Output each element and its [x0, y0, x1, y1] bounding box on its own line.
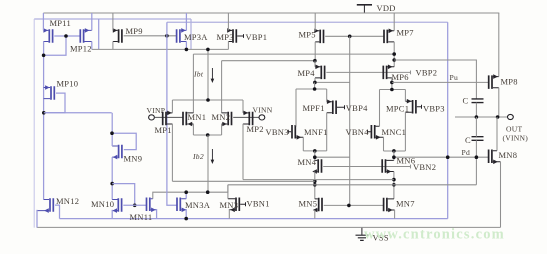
- transistor MP6 (PMOS): [383, 65, 394, 80]
- wire VBP2 tick: [410, 71, 412, 75]
- svg-text:MN12: MN12: [56, 196, 79, 206]
- svg-text:MPF1: MPF1: [303, 103, 325, 113]
- junction MP3A drain junction: [185, 48, 189, 52]
- wire MN2 gate to VINN: [233, 116, 259, 118]
- svg-text:MP12: MP12: [70, 44, 92, 54]
- VDD supply symbol: [357, 5, 372, 13]
- wire MP5 drain down: [314, 42, 316, 61]
- wire MP12 drain down: [91, 42, 93, 50]
- transistor MNF1 (NMOS): [288, 125, 303, 140]
- svg-text:VBN3: VBN3: [266, 127, 289, 137]
- wire MP2 drain down: [242, 124, 244, 180]
- svg-text:MP6: MP6: [392, 72, 409, 82]
- svg-text:MP10: MP10: [57, 79, 79, 89]
- svg-text:MP11: MP11: [50, 18, 71, 28]
- junction lineA-MP7 node: [392, 52, 396, 56]
- junction lineB-MP5 node: [313, 59, 317, 63]
- svg-text:VBN4: VBN4: [346, 127, 370, 137]
- wire MP3A source to rail: [185, 13, 187, 30]
- svg-text:Pd: Pd: [462, 148, 471, 157]
- wire Pu line (MP6 drain to MP8 gate): [392, 81, 489, 83]
- wire MP11-MP12 gate line: [54, 35, 80, 37]
- junction MN10 gate tie node: [133, 204, 137, 208]
- wire VBN2 tick: [410, 165, 412, 169]
- svg-text:MN1: MN1: [188, 112, 207, 122]
- port VINN: [259, 115, 265, 120]
- svg-text:www.cntronics.com: www.cntronics.com: [364, 227, 505, 243]
- svg-text:MN7: MN7: [396, 199, 415, 209]
- port VINP: [149, 115, 155, 120]
- junction left branch bottom node: [313, 149, 317, 153]
- wire line P2 (MP1 drain to MN4 source): [172, 180, 314, 182]
- junction MN6 source node P1: [392, 178, 396, 182]
- junction MN3A drain junction: [184, 190, 188, 194]
- wire MP7 drain down to MP6: [393, 42, 395, 67]
- wire MP10 gate-drain loop: [44, 93, 65, 113]
- capacitor C2: [472, 137, 484, 141]
- wire MP2 source up: [242, 100, 244, 113]
- wire left column vertical (MP11 drain to MN12 drain): [43, 42, 45, 200]
- svg-text:VBP1: VBP1: [246, 32, 268, 42]
- wire bias column (rail2 to MN3A gate): [167, 22, 177, 205]
- wire MN1 source down: [192, 124, 194, 135]
- transistor MP12 (PMOS): [80, 28, 92, 43]
- wire MN4 source column: [314, 172, 316, 199]
- wire MN10 source down: [111, 210, 113, 219]
- wire MN8 drain up to OUT: [496, 117, 498, 151]
- transistor MN5 (NMOS): [313, 198, 322, 213]
- wire VBP2 gate line: [326, 71, 410, 73]
- capacitor C1: [472, 99, 484, 103]
- junction MN7 drain node P3: [392, 183, 396, 187]
- wire MNF1 source down: [302, 137, 304, 151]
- wire MN6 source column: [393, 172, 395, 199]
- wire MN9 drain up: [111, 113, 113, 146]
- junction right branch bottom node: [392, 149, 396, 153]
- wire line P3 (MN3/MN5/MN7 drains): [228, 184, 477, 186]
- svg-text:MP9: MP9: [126, 26, 143, 36]
- svg-text:MNC1: MNC1: [382, 127, 407, 137]
- wire MP3 drain down: [227, 42, 229, 50]
- svg-text:Ibt: Ibt: [193, 70, 204, 79]
- wire MP1 source up: [171, 100, 173, 113]
- junction MP3A gate node: [165, 34, 169, 38]
- wire MN10 gate-drain tie: [112, 184, 135, 206]
- junction MN5 drain node P3: [313, 183, 317, 187]
- transistor MP3 (PMOS): [227, 28, 243, 43]
- transistor MN3 (NMOS): [228, 198, 246, 213]
- transistor MN12 (NMOS): [37, 198, 53, 213]
- junction Ib2 bottom junction: [206, 190, 210, 194]
- svg-text:MN2: MN2: [212, 112, 231, 122]
- wire MP5 source to rail: [314, 13, 316, 31]
- transistor MP9 (PMOS): [113, 28, 122, 43]
- junction MP10 drain node: [42, 111, 46, 115]
- junction right branch node: [390, 88, 394, 92]
- junction MP4 drain node: [313, 81, 317, 85]
- wire MPF1 drain down: [326, 113, 328, 151]
- svg-text:MP5: MP5: [299, 30, 316, 40]
- wire MNC1 drain up: [379, 90, 381, 127]
- svg-text:Ib2: Ib2: [192, 152, 204, 161]
- wire VSS bottom rail: [37, 226, 501, 228]
- wire MN4-MN6 gate line: [323, 166, 410, 168]
- transistor MP7 (PMOS): [384, 29, 394, 44]
- transistor MN10 (NMOS): [112, 198, 121, 213]
- wire Pd line (MN6 drain to MN8 gate): [394, 156, 489, 158]
- wire MP9 source to rail: [112, 13, 114, 30]
- transistor MP11 (PMOS): [43, 28, 52, 43]
- wire MP12 source to rail: [91, 13, 93, 30]
- wire cascode line B (MN2 drain fold): [222, 60, 315, 62]
- svg-text:VBN1: VBN1: [247, 199, 270, 209]
- transistor MP2 (PMOS): [243, 111, 253, 126]
- wire left branch stub: [314, 82, 316, 89]
- svg-text:MPC1: MPC1: [386, 104, 409, 114]
- wire MN11 drain up/right: [153, 185, 228, 199]
- wire left branch top line: [296, 88, 327, 90]
- wire MP4 source up: [314, 61, 316, 67]
- wire right branch bottom line: [384, 150, 406, 152]
- wire blue right vertical (Pd net): [447, 22, 449, 218]
- wire left branch bottom line: [303, 150, 326, 152]
- wire OUT line: [455, 116, 507, 118]
- wire MP9-MP3A gate line: [124, 35, 177, 37]
- svg-text:VINN: VINN: [253, 105, 273, 114]
- wire MNC1 source down: [383, 137, 385, 151]
- transistor MP1 (PMOS): [163, 111, 173, 126]
- wire MN9 gate-drain loop: [112, 133, 136, 149]
- junction MN3A source junction: [184, 217, 188, 221]
- wire MN4 drain tap line: [315, 156, 350, 158]
- transistor MP8 (PMOS): [489, 74, 499, 89]
- wire MP11 gate-drain loop: [44, 36, 66, 55]
- wire MN9 source down to MN10 drain: [111, 157, 113, 199]
- transistor MNC1 (NMOS): [368, 125, 384, 140]
- wire MNF1 drain up: [295, 89, 297, 126]
- wire MPC1 drain down: [404, 112, 406, 151]
- wire MN3 drain up to P3: [227, 185, 229, 199]
- wire MN7 source down: [394, 210, 396, 219]
- transistor MP4 (PMOS): [315, 65, 325, 80]
- wire blue bottom line: [60, 218, 448, 220]
- wire bias drain line y49: [92, 48, 229, 50]
- wire blue rail 1: [34, 18, 191, 20]
- junction node tail-Ibt: [206, 98, 210, 102]
- wire Ibt wire: [207, 49, 209, 100]
- wire MP8 drain down to OUT: [498, 88, 500, 117]
- transistor MPF1 (PMOS): [327, 99, 345, 114]
- wire MP4 drain down: [314, 78, 316, 83]
- junction tail bottom node: [206, 133, 210, 137]
- junction MP11 gate node: [64, 34, 68, 38]
- wire VDD top rail: [43, 12, 499, 14]
- svg-text:MP7: MP7: [397, 28, 414, 38]
- junction OUT-C node: [475, 115, 479, 119]
- transistor MN6 (NMOS): [382, 159, 394, 174]
- junction MN4 drain tap: [313, 155, 317, 159]
- transistor MPC1 (PMOS): [405, 99, 421, 114]
- wire MP1 drain down: [171, 124, 173, 182]
- transistor MP5 (PMOS): [314, 29, 323, 44]
- svg-text:VBP3: VBP3: [423, 104, 445, 114]
- transistor MP3A (PMOS): [177, 28, 187, 43]
- svg-text:MP2: MP2: [247, 124, 264, 134]
- wire tail top line: [172, 99, 243, 101]
- transistor MN11 (NMOS): [147, 198, 157, 213]
- wire MN2 drain vertical: [221, 61, 223, 113]
- wire C2 bottom to P3: [475, 140, 477, 185]
- svg-text:MP3: MP3: [217, 32, 234, 42]
- wire MN12 gate to blue line: [55, 205, 60, 219]
- svg-text:VBP4: VBP4: [346, 103, 368, 113]
- junction mirror gate node: [348, 35, 352, 39]
- svg-text:MN3A: MN3A: [185, 200, 211, 210]
- wire MN2 source down: [221, 124, 223, 135]
- Ib2 current arrow: [211, 149, 215, 164]
- svg-text:MN9: MN9: [124, 153, 143, 163]
- junction MN9 drain node: [110, 131, 114, 135]
- svg-text:MN11: MN11: [130, 212, 153, 222]
- wire MN5 source down: [314, 210, 316, 219]
- junction MP11 drain node: [42, 54, 46, 58]
- wire MP3 source to rail: [227, 13, 229, 30]
- transistor MN7 (NMOS): [384, 198, 395, 213]
- wire line P1 (MP2 drain to MN6 source): [243, 179, 394, 181]
- junction MN9-MN10 node: [110, 182, 114, 186]
- junction Pd-blue node: [446, 155, 450, 159]
- svg-text:MNF1: MNF1: [304, 127, 328, 137]
- wire mirror bias vertical: [349, 36, 351, 205]
- wire MP5-MP7 gate line: [325, 35, 384, 37]
- junction OUT-MP8 node: [496, 115, 500, 119]
- svg-text:(VINN): (VINN): [503, 134, 529, 143]
- transistor MN2 (NMOS): [222, 112, 232, 127]
- svg-text:C: C: [463, 96, 469, 106]
- transistor MN9 (NMOS): [112, 145, 122, 160]
- wire MP10 drain node to MN9 drain: [44, 112, 112, 114]
- junction Ibt top junction: [206, 48, 210, 52]
- wire MN1 drain vertical: [192, 54, 194, 113]
- svg-text:MP1: MP1: [155, 125, 172, 135]
- wire MP9 drain down: [112, 42, 114, 50]
- wire VINP to gates: [154, 116, 183, 118]
- wire pair source line: [193, 134, 221, 136]
- ground symbol VSS: [356, 228, 369, 241]
- transistor MN3A (NMOS): [177, 198, 186, 213]
- svg-text:VDD: VDD: [377, 3, 396, 13]
- svg-text:MN8: MN8: [499, 150, 518, 160]
- wire MN8 source down to VSS: [500, 162, 502, 228]
- transistor MN8 (NMOS): [489, 150, 501, 165]
- junction MN6 drain tap: [392, 155, 396, 159]
- wire MPF1 source up: [326, 89, 328, 102]
- wire MP6 drain down: [391, 78, 393, 90]
- junction comp-MP6 node: [392, 58, 396, 62]
- svg-text:MN3: MN3: [220, 200, 239, 210]
- junction MN5 gate node: [347, 204, 351, 208]
- wire MP4 drain line to mirror: [315, 81, 350, 83]
- wire compensation line to C1: [394, 60, 476, 99]
- wire rail1 drop to Ibt line: [190, 19, 192, 49]
- svg-text:C: C: [465, 135, 471, 145]
- transistor MP10 (PMOS): [44, 85, 55, 100]
- wire MP7 source to rail: [393, 13, 395, 31]
- wire right branch top line: [380, 89, 406, 91]
- wire MN11 source down: [156, 209, 158, 219]
- wire MP8 source to rail: [498, 13, 500, 77]
- svg-text:MN10: MN10: [91, 199, 114, 209]
- junction C2-Pd node: [475, 155, 479, 159]
- wire C2 top to OUT: [475, 117, 477, 137]
- wire MN12 source down to VSS: [36, 210, 38, 228]
- svg-text:VBP2: VBP2: [416, 67, 438, 77]
- svg-text:MP3A: MP3A: [184, 32, 208, 42]
- port OUT: [508, 114, 514, 119]
- svg-text:MN5: MN5: [299, 198, 318, 208]
- wire MN3A drain up: [185, 192, 187, 199]
- junction MN4 source node P2: [313, 180, 317, 184]
- wire MN10-MN11 gate line: [123, 204, 146, 206]
- junction MP6 drain node: [390, 81, 394, 85]
- wire MN3A source down: [185, 209, 187, 219]
- wire MP11 source to rail: [42, 13, 44, 30]
- svg-text:MP8: MP8: [501, 77, 518, 87]
- svg-text:VBN2: VBN2: [413, 162, 436, 172]
- junction left branch node: [313, 87, 317, 91]
- wire blue rail 2: [167, 21, 448, 23]
- transistor MN4 (NMOS): [312, 159, 321, 174]
- svg-text:OUT: OUT: [506, 124, 522, 133]
- wire C1 bottom to OUT line: [475, 103, 477, 117]
- wire blue drop to MP12 drain line: [98, 19, 100, 49]
- wire left border wire: [33, 19, 35, 228]
- wire MP3A drain down: [185, 42, 187, 50]
- wire MN3 source down: [228, 209, 230, 219]
- transistor MN1 (NMOS): [183, 112, 193, 127]
- wire MN6 drain up: [393, 151, 395, 160]
- wire cascode line A (MN1 drain fold): [193, 53, 394, 55]
- Ibt current arrow: [211, 68, 215, 83]
- wire MPC1 source up: [404, 90, 406, 102]
- wire MN5-MN7 gate line: [324, 204, 384, 206]
- svg-text:MP4: MP4: [298, 68, 316, 78]
- wire Ib2 wire: [207, 135, 209, 192]
- wire MN4 drain up: [314, 151, 316, 161]
- svg-text:Pu: Pu: [450, 73, 459, 82]
